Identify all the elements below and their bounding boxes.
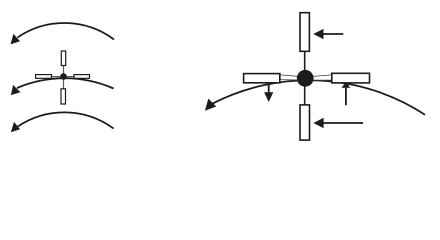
right figure: force arrow at bottom paddle (head) xyxy=(313,118,323,128)
right figure: arrowhead of trajectory arrow xyxy=(205,99,216,111)
left rotor: top paddle xyxy=(61,51,65,66)
right figure: upward arrow below right paddle (head) xyxy=(342,82,351,88)
left rotor: vertical axle xyxy=(63,65,65,89)
right figure: force arrow at bottom paddle (shaft) xyxy=(323,122,363,124)
left rotor: horizontal axle xyxy=(51,76,74,78)
left rotor: hub xyxy=(60,73,67,80)
right rotor: upper axle xyxy=(304,51,306,72)
left figure: arrowhead of middle flow arrow xyxy=(11,85,21,95)
right figure: upward arrow below right paddle (shaft) xyxy=(345,87,347,105)
left figure: arrowhead of bottom flow arrow xyxy=(11,122,20,132)
right figure: force arrow at top paddle (shaft) xyxy=(323,33,344,35)
left figure: curved flow arrow top xyxy=(18,23,115,39)
right figure: force arrow at top paddle (head) xyxy=(313,29,323,39)
left rotor: left paddle xyxy=(36,75,52,79)
left figure: curved flow arrow middle (below paddles, grazing hub) xyxy=(17,78,114,88)
left figure: curved flow arrow bottom xyxy=(18,112,114,128)
right figure: downward arrow below left paddle (shaft) xyxy=(268,83,270,93)
right rotor: top paddle xyxy=(300,13,309,52)
left rotor: bottom paddle xyxy=(61,89,66,104)
left rotor: right paddle xyxy=(74,75,90,79)
right rotor: bottom paddle xyxy=(300,105,310,140)
right rotor: hub xyxy=(297,70,314,87)
right figure: downward arrow below left paddle (head) xyxy=(264,92,273,102)
right rotor: lower axle xyxy=(304,86,306,106)
right rotor: right spoke wedge xyxy=(307,75,332,80)
right rotor: right paddle xyxy=(332,73,370,83)
left figure: arrowhead of top flow arrow xyxy=(11,34,21,45)
right rotor: left spoke wedge xyxy=(280,75,304,80)
right rotor: left paddle xyxy=(244,74,280,83)
right figure: large curved trajectory arrow xyxy=(211,80,426,114)
